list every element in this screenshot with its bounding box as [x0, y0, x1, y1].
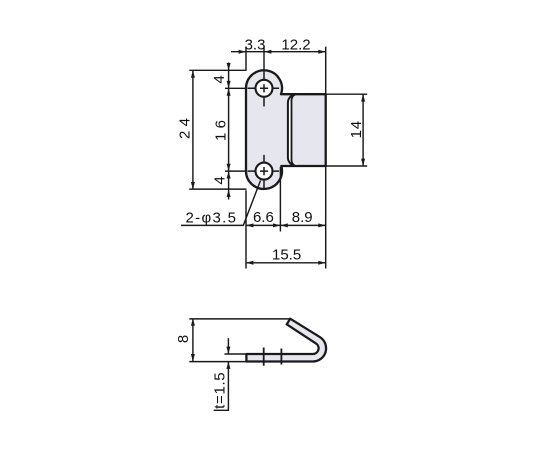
svg-text:14: 14: [348, 121, 365, 139]
svg-text:8: 8: [175, 335, 192, 343]
svg-text:2-φ3.5: 2-φ3.5: [186, 210, 237, 227]
svg-text:6.6: 6.6: [253, 209, 274, 226]
svg-text:15.5: 15.5: [272, 246, 301, 263]
svg-text:12.2: 12.2: [281, 37, 310, 54]
svg-text:t=1.5: t=1.5: [211, 372, 228, 409]
svg-text:4: 4: [211, 176, 228, 184]
svg-text:8.9: 8.9: [292, 209, 313, 226]
svg-text:4: 4: [211, 75, 228, 83]
svg-text:3.3: 3.3: [245, 37, 266, 54]
